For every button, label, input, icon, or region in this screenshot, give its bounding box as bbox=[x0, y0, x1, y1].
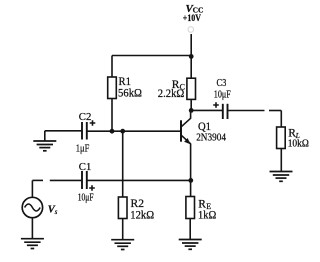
svg-text:R1: R1 bbox=[119, 76, 132, 88]
svg-text:2.2kΩ: 2.2kΩ bbox=[158, 88, 185, 100]
svg-text:+10V: +10V bbox=[183, 13, 201, 24]
svg-text:10μF: 10μF bbox=[78, 192, 94, 203]
svg-text:10kΩ: 10kΩ bbox=[288, 137, 309, 149]
svg-text:10μF: 10μF bbox=[214, 90, 231, 101]
svg-text:C3: C3 bbox=[217, 77, 227, 89]
svg-text:12kΩ: 12kΩ bbox=[130, 209, 154, 221]
svg-text:R2: R2 bbox=[131, 198, 145, 210]
svg-text:C2: C2 bbox=[79, 111, 92, 123]
svg-text:s: s bbox=[55, 208, 58, 216]
svg-text:C1: C1 bbox=[79, 161, 92, 173]
svg-text:56kΩ: 56kΩ bbox=[118, 88, 142, 100]
svg-text:1kΩ: 1kΩ bbox=[198, 209, 216, 221]
svg-text:2N3904: 2N3904 bbox=[196, 131, 226, 143]
svg-text:1μF: 1μF bbox=[76, 143, 90, 154]
